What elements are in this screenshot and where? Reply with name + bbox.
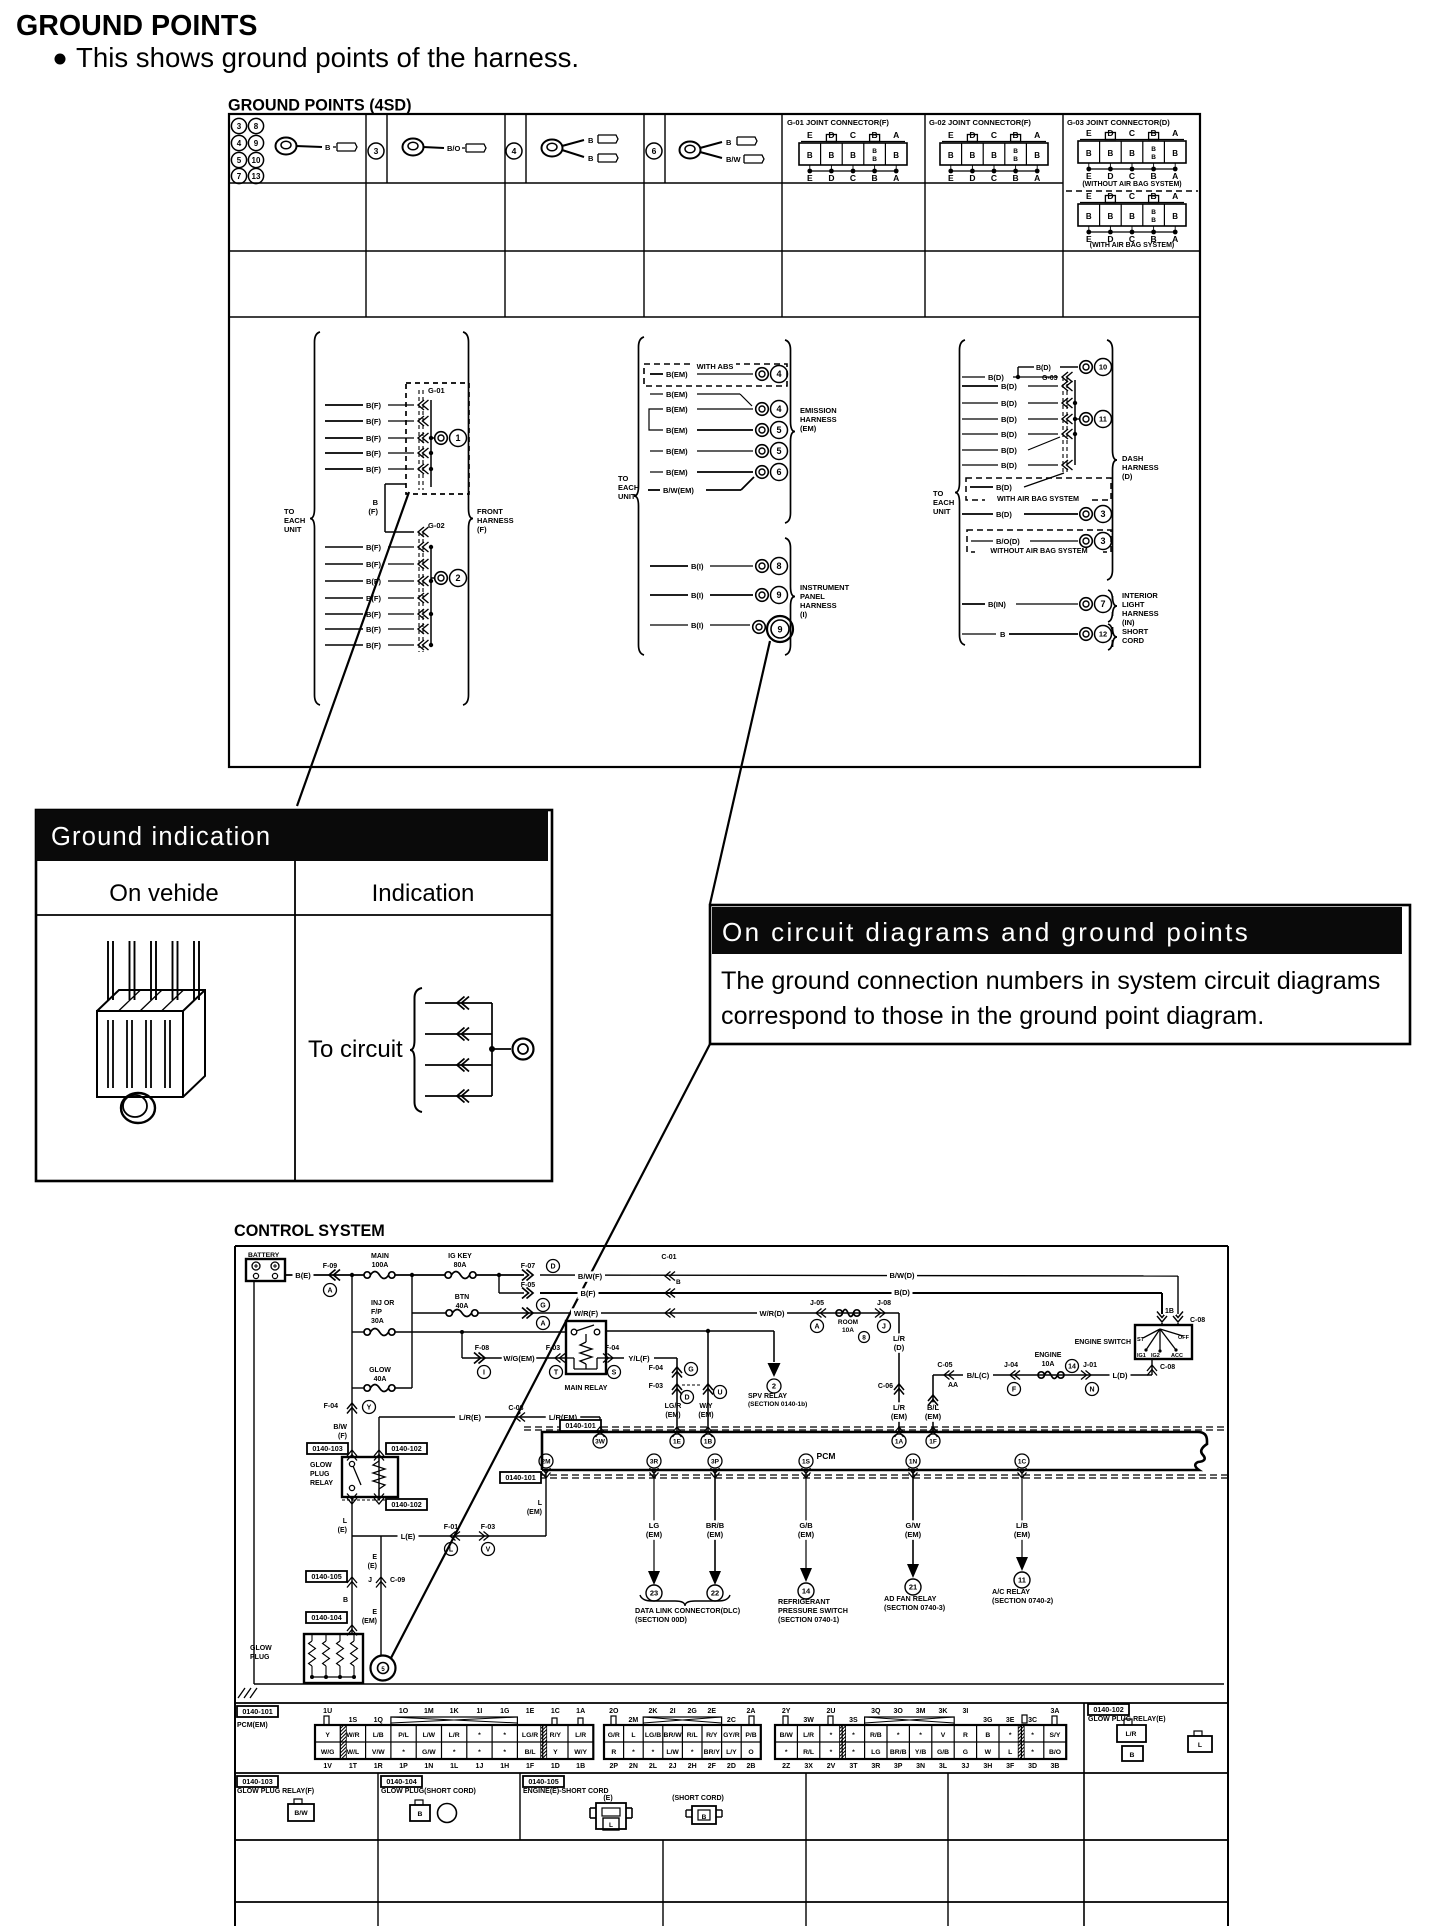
svg-text:B(I): B(I): [691, 591, 704, 600]
svg-text:The ground connection numbers: The ground connection numbers in system …: [721, 967, 1380, 995]
row 2 dividers: [378, 1773, 948, 1840]
svg-text:AD FAN RELAY: AD FAN RELAY: [884, 1594, 937, 1603]
connector G-01 bus: [418, 390, 434, 490]
wire to IG KEY fuse: [395, 1273, 445, 1277]
svg-text:10: 10: [252, 156, 261, 165]
svg-text:1R: 1R: [374, 1763, 383, 1770]
wire G/B(EM) column 1S: [796, 1470, 817, 1573]
svg-text:3W: 3W: [595, 1438, 606, 1445]
svg-text:B: B: [1151, 154, 1156, 161]
svg-text:1P: 1P: [399, 1763, 408, 1770]
ground point 5 in control system: [371, 1656, 396, 1681]
svg-text:BR/B: BR/B: [706, 1521, 725, 1530]
fuse MAIN 100A: [364, 1253, 395, 1279]
svg-text:14: 14: [802, 1587, 811, 1596]
svg-text:(F): (F): [368, 507, 378, 516]
svg-text:2: 2: [772, 1382, 776, 1391]
wire B/L column to PCM 1F: [923, 1375, 944, 1432]
svg-text:B: B: [325, 143, 331, 152]
indication symbol wires: [425, 997, 511, 1103]
label AD FAN RELAY: [884, 1594, 946, 1612]
dash harness closing brace: [1107, 340, 1117, 580]
ground symbol 4b: [756, 401, 788, 418]
svg-text:LIGHT: LIGHT: [1122, 600, 1145, 609]
ground terminal icon 2 (single wire B/O): [403, 139, 487, 156]
svg-text:J-04: J-04: [1004, 1362, 1018, 1369]
svg-text:1A: 1A: [576, 1708, 585, 1715]
svg-text:B(IN): B(IN): [988, 600, 1006, 609]
svg-text:B: B: [1086, 149, 1092, 158]
svg-text:D: D: [1107, 171, 1113, 181]
svg-text:3: 3: [1100, 509, 1105, 519]
svg-text:B: B: [872, 173, 878, 183]
label SHORT CORD: [1122, 627, 1149, 645]
svg-text:B: B: [1129, 149, 1135, 158]
svg-text:E: E: [807, 173, 813, 183]
svg-text:D: D: [969, 173, 975, 183]
wire B(F) row: [540, 1287, 1162, 1299]
svg-text:GLOW PLUG(SHORT CORD): GLOW PLUG(SHORT CORD): [381, 1788, 476, 1795]
svg-text:A: A: [1034, 173, 1040, 183]
ground terminal icon 4 (two wires B,B/W): [680, 137, 765, 164]
svg-text:B(F): B(F): [366, 465, 381, 474]
connector 0140-102 bottom label: [342, 1494, 427, 1511]
svg-text:C: C: [850, 130, 856, 140]
ground symbol 11: [1080, 411, 1112, 428]
fusible link F-04 glow: [324, 1388, 376, 1457]
svg-text:B: B: [948, 151, 954, 160]
label INSTRUMENT PANEL HARNESS (I): [800, 583, 850, 619]
svg-text:EMISSION: EMISSION: [800, 406, 837, 415]
svg-text:L: L: [1198, 1742, 1202, 1749]
svg-text:3: 3: [374, 146, 379, 156]
wire to main relay: [395, 1330, 566, 1334]
svg-text:(EM): (EM): [707, 1530, 724, 1539]
svg-text:0140-102: 0140-102: [391, 1500, 421, 1509]
PCM pin 1E: [670, 1434, 684, 1448]
svg-text:B/L(C): B/L(C): [967, 1371, 990, 1380]
ground terminal icon 3 (two wires B,B): [542, 135, 619, 163]
svg-text:7: 7: [1100, 599, 1105, 609]
svg-text:0140-103: 0140-103: [312, 1444, 342, 1453]
svg-text:B: B: [1108, 212, 1114, 221]
svg-text:(D): (D): [894, 1343, 905, 1352]
wire INJ branch: [352, 1275, 364, 1388]
svg-text:W/R(D): W/R(D): [760, 1309, 785, 1318]
svg-text:B: B: [893, 151, 899, 160]
svg-text:TO: TO: [618, 474, 628, 483]
svg-text:3I: 3I: [962, 1708, 968, 1715]
svg-text:F-07: F-07: [521, 1263, 536, 1270]
svg-text:2V: 2V: [827, 1763, 836, 1770]
joint connector G-02: [929, 118, 1048, 183]
svg-text:L/R: L/R: [893, 1334, 906, 1343]
svg-text:*: *: [1031, 1749, 1034, 1756]
svg-text:3M: 3M: [916, 1708, 926, 1715]
svg-text:B: B: [702, 1814, 707, 1821]
svg-text:B/W(F): B/W(F): [578, 1272, 603, 1281]
svg-text:*: *: [478, 1749, 481, 1756]
svg-text:L(D): L(D): [1113, 1371, 1128, 1380]
svg-text:B: B: [373, 498, 379, 507]
svg-text:0140-101: 0140-101: [242, 1707, 272, 1716]
svg-text:IG1: IG1: [1137, 1353, 1146, 1359]
svg-text:(EM): (EM): [925, 1412, 942, 1421]
svg-text:(EM): (EM): [527, 1509, 542, 1516]
fuse BTN 40A: [446, 1294, 478, 1317]
wire B(F) G-01 row 1: [325, 401, 414, 410]
wire Y/L(F): [606, 1353, 677, 1364]
svg-text:6: 6: [776, 467, 781, 477]
svg-text:A/C RELAY: A/C RELAY: [992, 1587, 1030, 1596]
svg-text:R/L: R/L: [687, 1732, 698, 1739]
branch to F-05: [499, 1275, 524, 1293]
chassis ground hatch: [238, 1688, 257, 1698]
interior light harness brace: [1108, 590, 1117, 622]
ground bolt ring: [121, 1093, 155, 1123]
svg-text:(EM): (EM): [646, 1530, 663, 1539]
svg-text:E: E: [1086, 191, 1092, 201]
PCM pin 3R: [647, 1454, 661, 1468]
connector C-08 top label: [1190, 1317, 1205, 1324]
svg-text:0140-104: 0140-104: [386, 1777, 416, 1786]
ground symbol 8: [756, 558, 788, 575]
control system outer box: [235, 1246, 1228, 1926]
svg-text:1V: 1V: [323, 1763, 332, 1770]
wire B(EM) with ABS to ground 4: [650, 370, 753, 379]
svg-text:W/G: W/G: [321, 1749, 335, 1756]
svg-text:*: *: [652, 1749, 655, 1756]
battery ground wire: [253, 1281, 255, 1684]
fuse INJ OR F/P 30A: [364, 1300, 395, 1336]
svg-text:INJ OR: INJ OR: [371, 1300, 394, 1307]
svg-text:3F: 3F: [1006, 1763, 1015, 1770]
wire B(F) G-02 row 6: [325, 625, 414, 634]
svg-text:B(F): B(F): [366, 625, 381, 634]
wire B(D) row 6 diagonal: [962, 437, 1060, 455]
svg-text:B(I): B(I): [691, 621, 704, 630]
svg-text:(WITH AIR BAG SYSTEM): (WITH AIR BAG SYSTEM): [1090, 242, 1175, 249]
svg-text:(E): (E): [368, 1563, 377, 1570]
svg-text:UNIT: UNIT: [618, 492, 636, 501]
emission harness closing brace: [785, 340, 795, 523]
svg-text:4: 4: [776, 404, 781, 414]
svg-text:LG: LG: [871, 1749, 880, 1756]
short cord connector icon: [672, 1795, 724, 1824]
svg-text:HARNESS: HARNESS: [1122, 463, 1159, 472]
svg-text:(F): (F): [477, 525, 487, 534]
svg-text:L/R: L/R: [449, 1732, 460, 1739]
svg-text:3P: 3P: [894, 1763, 903, 1770]
svg-text:1N: 1N: [909, 1458, 918, 1465]
svg-text:G-03 JOINT CONNECTOR(D): G-03 JOINT CONNECTOR(D): [1067, 118, 1170, 127]
svg-text:(E): (E): [603, 1795, 612, 1802]
svg-text:B(F): B(F): [366, 434, 381, 443]
svg-text:J: J: [368, 1577, 372, 1584]
svg-text:S: S: [612, 1370, 617, 1377]
svg-text:1B: 1B: [1165, 1308, 1174, 1315]
svg-text:F-01: F-01: [444, 1524, 459, 1531]
svg-text:F-03: F-03: [481, 1524, 496, 1531]
relay J-01: [1081, 1362, 1099, 1396]
wire B(EM) row 3 to ground 4: [649, 405, 753, 430]
svg-text:11: 11: [1018, 1576, 1026, 1585]
svg-text:B: B: [1151, 171, 1157, 181]
svg-text:B: B: [1172, 149, 1178, 158]
svg-text:WITHOUT AIR BAG SYSTEM: WITHOUT AIR BAG SYSTEM: [990, 546, 1087, 555]
connector 0140-101 PCM(EM) label: [237, 1706, 278, 1729]
wire G/W(EM) column 1N: [903, 1470, 924, 1567]
row 3 dividers: [378, 1840, 948, 1926]
svg-text:L/R: L/R: [1126, 1731, 1137, 1738]
svg-text:B(F): B(F): [366, 401, 381, 410]
svg-text:2H: 2H: [688, 1763, 697, 1770]
svg-text:ENGINE SWITCH: ENGINE SWITCH: [1075, 1339, 1131, 1346]
label A/C RELAY: [992, 1587, 1054, 1605]
svg-text:L/W: L/W: [666, 1749, 679, 1756]
svg-text:3P: 3P: [711, 1458, 720, 1465]
svg-text:2Y: 2Y: [782, 1708, 791, 1715]
connector A: [324, 1284, 337, 1297]
svg-text:B(I): B(I): [691, 562, 704, 571]
wire B(F) G-02 row 7: [325, 641, 414, 650]
SPV relay arrow: [768, 1363, 781, 1377]
svg-text:(EM): (EM): [1014, 1530, 1031, 1539]
svg-text:GLOW: GLOW: [250, 1645, 272, 1652]
svg-text:0140-102: 0140-102: [1093, 1705, 1123, 1714]
front harness closing brace: [463, 332, 473, 705]
svg-text:A: A: [1172, 171, 1178, 181]
svg-text:B(EM): B(EM): [666, 426, 688, 435]
svg-text:30A: 30A: [371, 1318, 384, 1325]
svg-text:(SECTION 0740-1): (SECTION 0740-1): [778, 1615, 840, 1624]
svg-text:2M: 2M: [629, 1717, 639, 1724]
svg-text:B: B: [1151, 209, 1156, 216]
leader line from ground 9 to callout box: [710, 641, 770, 904]
with ABS dashed box: [644, 360, 787, 386]
label DASH HARNESS (D): [1122, 454, 1159, 481]
svg-text:EACH: EACH: [933, 498, 954, 507]
svg-text:L/R: L/R: [803, 1732, 814, 1739]
svg-text:IG KEY: IG KEY: [448, 1253, 472, 1260]
svg-text:A: A: [893, 130, 899, 140]
svg-text:3G: 3G: [983, 1717, 993, 1724]
svg-text:3B: 3B: [1051, 1763, 1060, 1770]
svg-text:B(D): B(D): [996, 510, 1012, 519]
svg-text:2J: 2J: [669, 1763, 677, 1770]
svg-text:(EM): (EM): [905, 1530, 922, 1539]
svg-text:B: B: [991, 151, 997, 160]
svg-text:(EM): (EM): [800, 424, 817, 433]
PCM upper harness bus 0140-101: [524, 1420, 1228, 1437]
svg-text:BATTERY: BATTERY: [248, 1252, 280, 1259]
svg-text:B(F): B(F): [366, 449, 381, 458]
svg-text:B: B: [588, 154, 594, 163]
connector C-05: [937, 1362, 958, 1389]
svg-text:3A: 3A: [1051, 1708, 1060, 1715]
svg-text:*: *: [919, 1732, 922, 1739]
svg-text:4: 4: [237, 139, 242, 148]
instrument panel closing brace: [785, 538, 795, 655]
svg-text:P/B: P/B: [745, 1732, 756, 1739]
svg-text:D: D: [684, 1395, 689, 1402]
wire B(D) row 4 to ground 11: [962, 415, 1058, 424]
svg-text:MAIN RELAY: MAIN RELAY: [565, 1385, 608, 1392]
svg-text:1F: 1F: [526, 1763, 535, 1770]
connector C-01: [661, 1254, 681, 1318]
svg-text:A: A: [814, 1324, 819, 1331]
svg-text:B/W: B/W: [726, 155, 742, 164]
svg-text:B(D): B(D): [1036, 365, 1051, 372]
svg-text:1J: 1J: [476, 1763, 484, 1770]
svg-text:4: 4: [512, 146, 517, 156]
label REFRIGERANT PRESSURE SWITCH: [778, 1597, 848, 1624]
PCM lower harness bus 0140-101: [500, 1468, 1228, 1483]
svg-text:2B: 2B: [747, 1763, 756, 1770]
ground indication header row line: [36, 861, 552, 1181]
svg-text:14: 14: [1068, 1364, 1076, 1371]
wire B(F) G-02 row 1: [325, 543, 414, 552]
svg-text:3W: 3W: [803, 1717, 814, 1724]
svg-text:B: B: [1086, 212, 1092, 221]
svg-text:LG/B: LG/B: [645, 1732, 661, 1739]
svg-text:40A: 40A: [374, 1376, 387, 1383]
fusible link F-05: [521, 1282, 536, 1299]
svg-text:GROUND POINTS: GROUND POINTS: [16, 10, 257, 42]
svg-text:C-08: C-08: [1160, 1364, 1175, 1371]
svg-text:F-03: F-03: [546, 1345, 561, 1352]
svg-text:B(EM): B(EM): [666, 390, 688, 399]
svg-text:B: B: [1013, 148, 1018, 155]
svg-text:3T: 3T: [849, 1763, 858, 1770]
PCM box U2: [542, 1432, 1207, 1470]
connector 0140-104 glow plug short cord cell: [381, 1776, 476, 1823]
svg-text:B: B: [1129, 212, 1135, 221]
svg-text:3S: 3S: [849, 1717, 858, 1724]
svg-text:B(F): B(F): [366, 594, 381, 603]
svg-text:B: B: [726, 138, 732, 147]
svg-text:L: L: [538, 1500, 543, 1507]
svg-text:B(D): B(D): [1001, 461, 1017, 470]
wire B(D) drop to engine switch: [1157, 1293, 1167, 1326]
svg-text:INTERIOR: INTERIOR: [1122, 591, 1158, 600]
svg-text:5: 5: [237, 156, 242, 165]
svg-text:J-01: J-01: [1083, 1362, 1097, 1369]
svg-text:C: C: [991, 130, 997, 140]
svg-text:3: 3: [1100, 536, 1105, 546]
ground symbol 12: [1080, 626, 1112, 643]
fuse IG KEY 80A: [445, 1253, 476, 1279]
svg-text:7: 7: [237, 172, 242, 181]
wire B(F) G-01 row 2: [325, 417, 414, 426]
dashed separator in G-03 cell: [1066, 190, 1198, 192]
svg-text:3J: 3J: [962, 1763, 970, 1770]
connector G-01 dashed box: [406, 383, 469, 494]
svg-text:(SECTION 00D): (SECTION 00D): [635, 1615, 688, 1624]
svg-text:B(F): B(F): [581, 1289, 596, 1298]
PCM pin 1A: [892, 1434, 906, 1448]
svg-text:C: C: [850, 173, 856, 183]
svg-text:B: B: [1108, 149, 1114, 158]
wire B(F) G-01 row 5: [325, 465, 414, 474]
svg-text:(E): (E): [338, 1527, 347, 1534]
svg-text:C-01: C-01: [661, 1254, 676, 1261]
svg-text:EACH: EACH: [284, 516, 305, 525]
wire B to ground 12: [962, 630, 1078, 639]
svg-text:1I: 1I: [477, 1708, 483, 1715]
wire W/Y(EM) column: [649, 1331, 727, 1432]
wire L(D) to C-08: [1147, 1360, 1175, 1376]
svg-text:B(D): B(D): [894, 1288, 910, 1297]
svg-text:2G: 2G: [688, 1708, 698, 1715]
svg-text:B(F): B(F): [366, 560, 381, 569]
svg-text:1A: 1A: [895, 1438, 904, 1445]
svg-text:5: 5: [776, 425, 781, 435]
svg-text:1U: 1U: [323, 1708, 332, 1715]
svg-text:On vehide: On vehide: [109, 880, 218, 907]
fan relay arrow 21: [905, 1564, 921, 1595]
connector G-03 label and bus: [1042, 372, 1079, 473]
svg-text:(SECTION 0740-3): (SECTION 0740-3): [884, 1603, 946, 1612]
svg-text:B(D): B(D): [1001, 415, 1017, 424]
svg-text:0140-102: 0140-102: [391, 1444, 421, 1453]
svg-text:N: N: [1089, 1387, 1094, 1394]
data link arrow 22: [707, 1571, 723, 1601]
svg-text:2M: 2M: [541, 1458, 550, 1465]
svg-text:MAIN: MAIN: [371, 1253, 389, 1260]
svg-text:L: L: [449, 1547, 454, 1554]
svg-text:80A: 80A: [454, 1262, 467, 1269]
svg-text:1C: 1C: [1018, 1458, 1027, 1465]
svg-text:8: 8: [862, 1334, 866, 1341]
svg-text:LG/R: LG/R: [665, 1403, 682, 1410]
wire LG/R(EM) column: [649, 1358, 698, 1432]
svg-text:B: B: [850, 151, 856, 160]
label SPV RELAY: [748, 1393, 807, 1408]
svg-text:4: 4: [776, 369, 781, 379]
svg-text:A: A: [540, 1321, 545, 1328]
svg-text:To circuit: To circuit: [308, 1036, 403, 1063]
ground point number 3: [368, 143, 384, 159]
wire B(IN) to ground 7: [962, 600, 1078, 609]
PCM connector pin group 2: [604, 1708, 761, 1770]
PCM connector pin group 3: [775, 1708, 1066, 1770]
wire B/L row to engine switch: [933, 1370, 1152, 1381]
svg-text:F-04: F-04: [324, 1403, 339, 1410]
fusible link arrows BTN row: [522, 1308, 550, 1330]
PCM connector pin group 1: [315, 1708, 593, 1770]
PCM pin 1B: [701, 1434, 715, 1448]
svg-text:A: A: [1172, 191, 1178, 201]
svg-text:L/R(E): L/R(E): [459, 1413, 482, 1422]
wire L/R(E) row: [379, 1405, 600, 1423]
svg-text:W/Y: W/Y: [574, 1749, 587, 1756]
svg-text:P/L: P/L: [398, 1732, 409, 1739]
svg-text:0140-105: 0140-105: [528, 1777, 558, 1786]
svg-text:R/L: R/L: [803, 1749, 814, 1756]
leader line from callout box to control system ground 5: [391, 1044, 710, 1658]
svg-text:3O: 3O: [894, 1708, 904, 1715]
svg-text:WITH ABS: WITH ABS: [697, 362, 734, 371]
svg-text:G/B: G/B: [937, 1749, 949, 1756]
svg-text:B/O(D): B/O(D): [996, 537, 1020, 546]
wire B(F) G-02 row 5: [325, 610, 414, 619]
svg-text:10A: 10A: [1042, 1361, 1055, 1368]
svg-text:E: E: [948, 173, 954, 183]
svg-text:Indication: Indication: [372, 880, 475, 907]
svg-text:F-09: F-09: [323, 1263, 338, 1270]
svg-text:*: *: [852, 1732, 855, 1739]
